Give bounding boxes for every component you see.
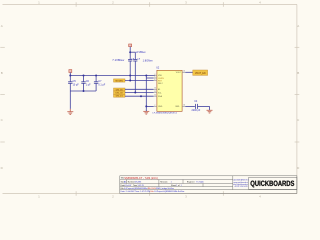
- svg-text:0.1 µF: 0.1 µF: [98, 83, 105, 86]
- svg-text:DSI_D1: DSI_D1: [116, 96, 124, 98]
- svg-text:2200 pF: 2200 pF: [192, 109, 201, 112]
- capacitor C7: [94, 76, 98, 92]
- ground GND3: [207, 110, 213, 113]
- node junction bus-C5: [69, 75, 71, 77]
- capacitor C6: [81, 76, 85, 92]
- capacitor C4: [196, 104, 198, 109]
- wire PAD out: [185, 105, 195, 107]
- pin numbers left: [154, 74, 156, 107]
- wire v2: [134, 52, 136, 92]
- wire bottom bus: [70, 90, 96, 92]
- date row: [121, 184, 182, 187]
- IC U2 body: [157, 70, 182, 111]
- net label box DSI_CK: [114, 91, 126, 95]
- company info: [233, 179, 249, 189]
- file row: [121, 187, 175, 190]
- svg-text:Engineer: Engineer: [187, 181, 195, 184]
- net label box DSI_D0: [114, 88, 126, 91]
- node junction bus-v1: [129, 75, 131, 77]
- wire C4 to ground: [198, 106, 210, 110]
- svg-text:LP-SN65DSI85ZQE-NC1: LP-SN65DSI85ZQE-NC1: [153, 113, 178, 115]
- wire v1: [129, 47, 131, 81]
- node junction dsid1: [140, 95, 142, 97]
- svg-text:24: 24: [183, 71, 185, 73]
- node junction v2-dsick: [134, 92, 136, 94]
- wire gnd pin: [146, 105, 153, 107]
- svg-text:12: 12: [154, 95, 156, 97]
- svg-text:1: 1: [171, 182, 172, 184]
- svg-text:SCL: SCL: [158, 92, 162, 94]
- svg-text:10: 10: [154, 88, 156, 90]
- wire top bus: [70, 75, 155, 77]
- node junction bus-C6: [83, 75, 85, 77]
- node junction bus-v3: [145, 75, 147, 77]
- svg-text:A: A: [297, 24, 299, 28]
- svg-text:6: 6: [154, 79, 155, 81]
- svg-text:Date: 2-Jul-2007 Time: 1:07:: Date: 2-Jul-2007 Time: 1:07:25 PM File: …: [121, 190, 185, 193]
- svg-text:VOUT_EN: VOUT_EN: [195, 73, 206, 75]
- svg-text:B: B: [297, 71, 299, 75]
- wire DSI_CK: [125, 92, 154, 94]
- capacitor C8: [128, 60, 132, 62]
- svg-text:A: A: [1, 24, 3, 28]
- wire MODE0 to pin: [125, 80, 154, 82]
- svg-text:+39 02 1234 5678: +39 02 1234 5678: [234, 186, 248, 188]
- svg-text:SEL2: SEL2: [158, 83, 163, 85]
- node junction v1-mode0: [129, 80, 131, 82]
- title block frame: [120, 176, 297, 194]
- node junction bottom-C6: [83, 90, 85, 92]
- svg-text:TC Sabb: TC Sabb: [196, 182, 203, 184]
- ground GND2: [143, 109, 149, 114]
- svg-text:7.1V8Nev: 7.1V8Nev: [112, 59, 125, 62]
- wire v3: [145, 76, 147, 107]
- node junction v3-gnd: [145, 105, 147, 107]
- net label box VOUT1: [193, 70, 208, 75]
- svg-text:1:07:25: 1:07:25: [138, 185, 144, 187]
- power flag VCC1: [69, 70, 72, 76]
- svg-text:GND: GND: [158, 106, 163, 108]
- power flag VCC2: [129, 44, 132, 47]
- svg-text:A1: A1: [158, 88, 160, 91]
- svg-text:2: 2: [154, 105, 155, 107]
- wire DSI_D0: [125, 88, 154, 90]
- capacitor C5: [68, 76, 72, 92]
- svg-text:B: B: [1, 71, 3, 75]
- svg-text:16: 16: [183, 105, 185, 107]
- wire v3 branch: [146, 77, 153, 79]
- node junction v1-label: [129, 51, 131, 53]
- net label box DSI_D1: [114, 94, 126, 97]
- wire to ground: [69, 91, 71, 109]
- svg-text:E:\Projects\QB\SN65DSI8x\4N.07: E:\Projects\QB\SN65DSI8x\4N.07-45\SN65_b…: [124, 187, 174, 190]
- svg-text:VOUT: VOUT: [176, 72, 182, 74]
- sheet background: [0, 0, 300, 198]
- net label box MODE0: [114, 79, 126, 83]
- svg-text:L1V8Nev: L1V8Nev: [136, 51, 147, 54]
- svg-text:DS-383: DS-383: [135, 182, 141, 184]
- QUICKBOARDS logo: [251, 181, 295, 188]
- svg-text:A4: A4: [124, 181, 126, 184]
- svg-text:File: File: [121, 188, 124, 190]
- svg-text:2-Jul-07: 2-Jul-07: [125, 185, 132, 187]
- pin stubs left: [154, 76, 157, 107]
- capacitor C9: [133, 60, 137, 62]
- svg-text:11: 11: [154, 91, 156, 93]
- pin stubs right: [182, 72, 185, 106]
- svg-text:PAD: PAD: [175, 105, 179, 108]
- wire DSI_D1: [125, 95, 154, 97]
- svg-text:Revision: Revision: [160, 182, 167, 184]
- size row: [121, 181, 204, 184]
- svg-text:1: 1: [181, 185, 182, 187]
- pin names inside: [158, 72, 182, 108]
- wire net stub: [130, 51, 135, 53]
- svg-text:1 µF: 1 µF: [86, 83, 91, 86]
- svg-text:10 µF: 10 µF: [73, 83, 80, 86]
- ground GND1: [67, 109, 73, 115]
- svg-text:MODE0: MODE0: [116, 81, 124, 83]
- svg-text:1.8GNev: 1.8GNev: [143, 59, 154, 62]
- wire VOUT: [185, 71, 193, 73]
- wire v3 lower: [145, 106, 147, 109]
- node junction bus-C7: [95, 75, 97, 77]
- svg-text:SN65DSI85-CT - 7x84 (24 b): SN65DSI85-CT - 7x84 (24 b): [124, 177, 158, 180]
